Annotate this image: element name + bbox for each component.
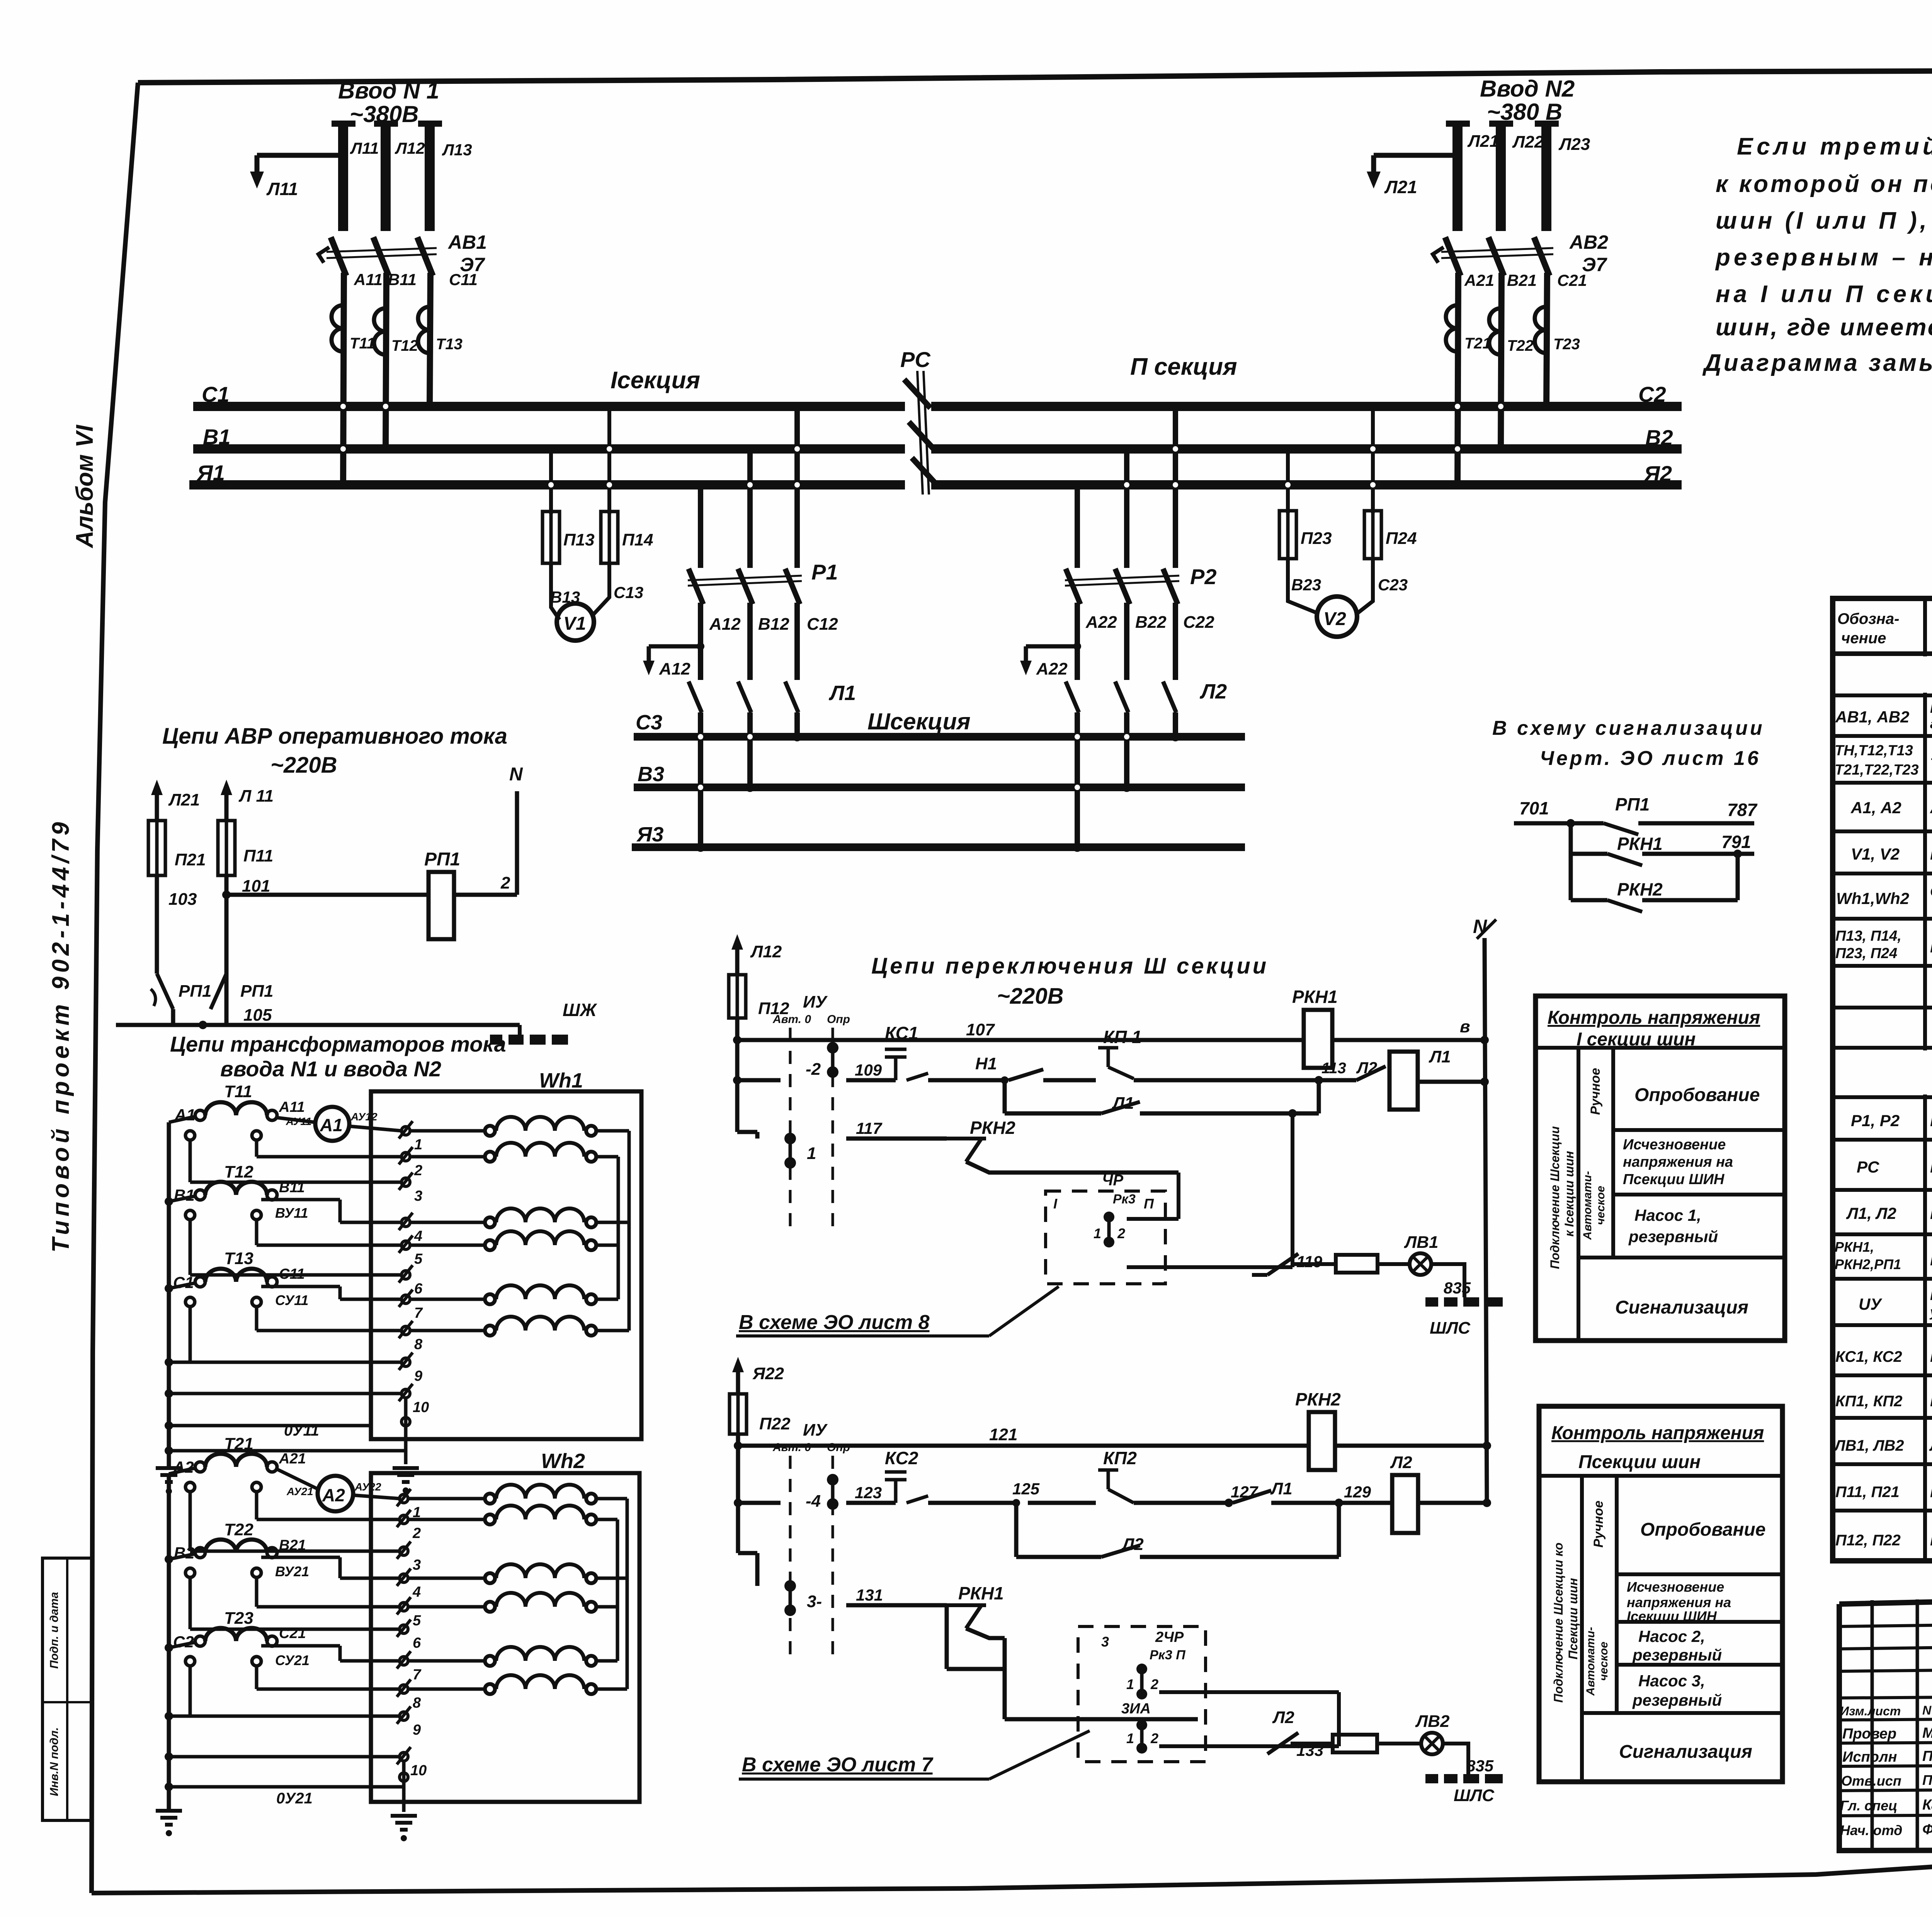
svg-text:Изм.лист: Изм.лист xyxy=(1840,1704,1901,1718)
svg-text:Диаграмма замыкания контакто: Диаграмма замыкания контактов универсаль… xyxy=(1702,350,1932,376)
row LV lampa xyxy=(1833,1462,1932,1466)
svg-text:UУ: UУ xyxy=(1859,1295,1883,1313)
svg-text:Л22: Л22 xyxy=(1512,133,1544,151)
bus C3 xyxy=(634,733,1245,741)
P2 poles mid segment xyxy=(1075,603,1080,680)
svg-text:Л12: Л12 xyxy=(750,942,782,961)
svg-text:П13: П13 xyxy=(563,530,595,549)
svg-text:Л 11: Л 11 xyxy=(238,787,274,806)
feeder 2 pole L21 xyxy=(1446,121,1470,127)
tap A22 arrow xyxy=(1026,644,1077,649)
svg-text:3: 3 xyxy=(413,1557,421,1573)
svg-text:3ИА: 3ИА xyxy=(1121,1701,1151,1717)
svg-text:П11, П21: П11, П21 xyxy=(1835,1484,1900,1501)
svg-text:Автомати-: Автомати- xyxy=(1584,1627,1597,1696)
svg-text:П22: П22 xyxy=(759,1414,791,1433)
svg-text:Насос 2,: Насос 2, xyxy=(1638,1627,1705,1645)
svg-text:П: П xyxy=(1144,1196,1154,1212)
svg-text:2: 2 xyxy=(1150,1676,1158,1692)
feed arrow L22 xyxy=(732,1357,744,1372)
row P1 P2 rubilnik xyxy=(1833,1138,1932,1142)
svg-text:Цепи трансформаторов тока: Цепи трансформаторов тока xyxy=(170,1032,506,1056)
wire 103 stem xyxy=(155,875,159,974)
svg-text:Автомати-: Автомати- xyxy=(1581,1171,1594,1240)
feeder2 poles down to buses xyxy=(1458,273,1458,485)
svg-text:Сигнализация: Сигнализация xyxy=(1619,1742,1752,1762)
svg-text:Исчезновение: Исчезновение xyxy=(1623,1137,1726,1153)
contactor L2 strokes xyxy=(1066,681,1079,712)
svg-text:Опр: Опр xyxy=(827,1441,850,1454)
svg-text:С22: С22 xyxy=(1183,613,1214,632)
fuse P11 xyxy=(218,821,235,875)
bus C section I segment xyxy=(193,402,905,411)
svg-text:1: 1 xyxy=(1094,1225,1101,1241)
svg-text:2: 2 xyxy=(1117,1225,1125,1241)
svg-text:А1: А1 xyxy=(320,1115,343,1135)
svg-text:РКН1: РКН1 xyxy=(1292,987,1338,1007)
bus A section II segment xyxy=(931,480,1682,489)
svg-text:2ЧР: 2ЧР xyxy=(1155,1629,1184,1645)
wire fuse P23 to V2 xyxy=(1288,559,1318,614)
Wh2 coil feeds xyxy=(408,1499,627,1689)
wire fuse P24 to V2 xyxy=(1357,559,1373,614)
fuse P24 body xyxy=(1364,511,1381,559)
wire RP1 to N xyxy=(454,893,517,897)
svg-text:в: в xyxy=(1460,1017,1470,1036)
wire 101 stem xyxy=(224,875,229,1025)
svg-text:Шсекция: Шсекция xyxy=(867,709,971,734)
svg-text:Подключение Шсекции: Подключение Шсекции xyxy=(1548,1126,1562,1269)
svg-text:0У11: 0У11 xyxy=(284,1422,319,1439)
junction dots feeder2 on buses xyxy=(1453,480,1462,489)
svg-text:Т11: Т11 xyxy=(224,1082,252,1101)
svg-text:701: 701 xyxy=(1519,798,1549,818)
svg-text:чение: чение xyxy=(1841,630,1886,647)
relay coil RKN2 xyxy=(1309,1412,1335,1470)
wire 107 xyxy=(735,1018,740,1132)
svg-text:Ввод N 1: Ввод N 1 xyxy=(338,78,439,104)
CT T13 xyxy=(418,307,430,353)
svg-text:РС: РС xyxy=(1857,1158,1879,1176)
svg-text:Переключатель: Переключатель xyxy=(1930,1287,1932,1303)
svg-text:С23: С23 xyxy=(1378,576,1408,594)
fuse P23 riser xyxy=(1286,449,1290,513)
svg-text:ВУ21: ВУ21 xyxy=(275,1564,309,1579)
rail channel2 xyxy=(738,1501,781,1505)
svg-text:2: 2 xyxy=(500,874,510,892)
svg-text:N докум: N докум xyxy=(1922,1703,1932,1717)
relay coil RKN1 xyxy=(1304,1010,1332,1068)
svg-text:Р2: Р2 xyxy=(1190,564,1217,589)
svg-text:ЛВ2: ЛВ2 xyxy=(1415,1712,1450,1731)
svg-text:1: 1 xyxy=(414,1137,422,1153)
svg-text:П21: П21 xyxy=(175,850,206,869)
svg-text:3: 3 xyxy=(1101,1634,1109,1650)
bus B section II segment xyxy=(931,444,1682,454)
svg-text:Wh2: Wh2 xyxy=(541,1450,585,1473)
empty row 1 xyxy=(1833,1006,1932,1009)
svg-text:9: 9 xyxy=(413,1722,421,1738)
svg-text:РКН2: РКН2 xyxy=(1295,1389,1341,1409)
svg-text:Опробование: Опробование xyxy=(1640,1519,1765,1540)
svg-text:Опр: Опр xyxy=(827,1013,850,1026)
CT T21 xyxy=(1446,305,1458,352)
common return bus Wh2 xyxy=(167,1474,171,1811)
svg-text:Подп. и дата: Подп. и дата xyxy=(48,1592,61,1669)
svg-text:~220В: ~220В xyxy=(997,984,1064,1009)
svg-text:Нач. отд: Нач. отд xyxy=(1840,1822,1902,1838)
line from 119 contact left xyxy=(1291,1262,1336,1266)
svg-text:3: 3 xyxy=(414,1188,422,1204)
svg-text:Типовой проект 902-1-44/79: Типовой проект 902-1-44/79 xyxy=(48,818,74,1253)
bus C section II segment xyxy=(931,402,1682,411)
svg-text:Ручное: Ручное xyxy=(1588,1068,1603,1115)
svg-text:автоматический: автоматический xyxy=(1930,717,1932,731)
voltmeter V1 xyxy=(557,603,594,641)
svg-text:ШЛС: ШЛС xyxy=(1430,1319,1471,1337)
bypass contact L1 xyxy=(1003,1080,1007,1113)
Wh1 mesh wires xyxy=(169,1126,406,1464)
svg-text:8: 8 xyxy=(414,1336,423,1353)
terminal bar ShZh xyxy=(518,1025,522,1035)
svg-text:АУ21: АУ21 xyxy=(286,1485,313,1497)
CT T12 xyxy=(374,308,386,355)
svg-text:Л1: Л1 xyxy=(828,681,856,705)
feeder1 poles through CT zone down to buses xyxy=(343,273,344,485)
svg-text:шин, где имеется напряжени: шин, где имеется напряжение. xyxy=(1716,314,1932,341)
contact RP1 right xyxy=(211,974,226,1009)
svg-text:ВУ11: ВУ11 xyxy=(275,1205,308,1221)
svg-text:Провер: Провер xyxy=(1842,1726,1896,1742)
svg-text:Пономарев: Пономарев xyxy=(1922,1772,1932,1788)
svg-text:Л21: Л21 xyxy=(1467,132,1499,151)
PC linkage xyxy=(917,371,923,495)
svg-text:Кнопка управления: Кнопка управления xyxy=(1930,1393,1932,1410)
feeder 1 pole L13 xyxy=(418,121,442,127)
svg-text:Wh1: Wh1 xyxy=(539,1069,583,1092)
svg-text:П14: П14 xyxy=(622,530,653,549)
svg-text:791: 791 xyxy=(1721,832,1751,852)
node N riser xyxy=(515,791,519,895)
svg-text:В2: В2 xyxy=(1645,425,1673,450)
svg-text:113: 113 xyxy=(1321,1060,1346,1077)
svg-text:4: 4 xyxy=(414,1228,422,1244)
svg-text:КП1, КП2: КП1, КП2 xyxy=(1835,1393,1902,1410)
PC knife A xyxy=(912,458,938,486)
svg-text:Л1: Л1 xyxy=(1429,1047,1451,1066)
contact RP1 left xyxy=(157,974,173,1009)
row transformator toka xyxy=(1833,781,1932,785)
svg-text:1: 1 xyxy=(807,1144,816,1163)
svg-text:Исчезновение: Исчезновение xyxy=(1627,1579,1724,1595)
svg-text:109: 109 xyxy=(855,1061,882,1079)
svg-text:5: 5 xyxy=(414,1251,423,1267)
svg-text:КП 1: КП 1 xyxy=(1103,1027,1142,1047)
row predohranitel PRS-6 xyxy=(1833,964,1932,968)
contactor L1 strokes xyxy=(689,681,702,712)
svg-text:РКН2: РКН2 xyxy=(970,1118,1015,1138)
svg-text:5: 5 xyxy=(413,1613,421,1629)
svg-text:Амперметр: Амперметр xyxy=(1930,799,1932,817)
relay coil RP1 xyxy=(429,872,454,939)
svg-text:АУ22: АУ22 xyxy=(354,1481,381,1493)
row L1 L2 puskatel xyxy=(1833,1232,1932,1236)
svg-text:Фролов: Фролов xyxy=(1922,1822,1932,1838)
svg-text:125: 125 xyxy=(1012,1480,1040,1498)
svg-text:Авт. 0: Авт. 0 xyxy=(772,1441,811,1454)
svg-text:СУ11: СУ11 xyxy=(275,1292,308,1308)
left grid horizontals xyxy=(1839,1623,1932,1626)
svg-text:А2: А2 xyxy=(322,1485,345,1505)
dashed aux box channel2 xyxy=(1078,1626,1206,1762)
ground Wh2 left xyxy=(156,1811,182,1825)
svg-text:РКН1: РКН1 xyxy=(1617,834,1663,854)
svg-text:Я2: Я2 xyxy=(1643,461,1672,486)
svg-text:Сигнализация: Сигнализация xyxy=(1615,1297,1748,1318)
feeder 1 pole L11 xyxy=(332,121,355,127)
CT T22 xyxy=(1489,308,1501,355)
svg-text:10: 10 xyxy=(413,1399,429,1416)
svg-text:Счетчик активной: Счетчик активной xyxy=(1930,884,1932,899)
svg-text:7: 7 xyxy=(414,1305,423,1321)
svg-text:А11: А11 xyxy=(354,270,383,289)
svg-text:1: 1 xyxy=(1126,1730,1134,1746)
svg-text:резервный: резервный xyxy=(1628,1227,1718,1246)
svg-text:А21: А21 xyxy=(1464,271,1494,289)
ground Wh1 under terminal 10 xyxy=(393,1468,419,1482)
svg-text:ЧР: ЧР xyxy=(1102,1172,1123,1189)
svg-text:Л2: Л2 xyxy=(1272,1708,1294,1727)
svg-text:А12: А12 xyxy=(659,659,690,678)
arrow feed L11 xyxy=(221,780,232,795)
junction dots feeder1 on buses xyxy=(338,480,348,489)
svg-text:121: 121 xyxy=(989,1425,1017,1444)
svg-text:В схему сигнализации: В схему сигнализации xyxy=(1492,717,1765,739)
fuse P23 body xyxy=(1279,511,1296,559)
svg-text:РП1: РП1 xyxy=(1615,794,1650,814)
svg-text:шин (I или П ), к которой п: шин (I или П ), к которой подключен резе… xyxy=(1716,207,1932,234)
svg-text:Рубильник: Рубильник xyxy=(1930,1158,1932,1176)
svg-text:Насос 1,: Насос 1, xyxy=(1634,1206,1701,1224)
svg-text:Iсекция: Iсекция xyxy=(611,367,700,394)
svg-text:Л12: Л12 xyxy=(395,139,425,157)
svg-text:Вольтметр: Вольтметр xyxy=(1930,845,1932,863)
CT T23 xyxy=(195,1636,205,1646)
control box I section xyxy=(1536,996,1785,1341)
svg-text:П24: П24 xyxy=(1386,529,1417,548)
fuse P12 xyxy=(729,975,746,1018)
svg-text:АВ1, АВ2: АВ1, АВ2 xyxy=(1835,708,1909,726)
svg-text:Л11: Л11 xyxy=(266,179,298,199)
svg-text:Рк3: Рк3 xyxy=(1113,1192,1136,1207)
rail channel1 xyxy=(737,1078,781,1083)
svg-text:Л2: Л2 xyxy=(1390,1453,1412,1472)
dashed aux box channel1 xyxy=(1046,1191,1165,1284)
wire fuse P14 to V1 xyxy=(594,563,609,614)
svg-text:V1, V2: V1, V2 xyxy=(1851,845,1900,863)
svg-text:Педан: Педан xyxy=(1922,1748,1932,1764)
row UU perekluchatel xyxy=(1833,1323,1932,1327)
breaker AB1 pole strokes xyxy=(331,237,346,276)
bus A3 xyxy=(632,843,1245,851)
terminal column Wh2 xyxy=(397,1489,411,1764)
svg-text:Цепи АВР оперативного тока: Цепи АВР оперативного тока xyxy=(162,724,507,749)
svg-text:I секции шин: I секции шин xyxy=(1577,1029,1696,1050)
frame bottom border xyxy=(92,1849,1932,1893)
disconnect P2 risers xyxy=(1075,485,1080,568)
band shkaf 2 xyxy=(1833,1046,1932,1050)
breaker AB1 hook flag xyxy=(318,247,329,263)
CT T11 xyxy=(195,1110,205,1120)
box2 column dividers xyxy=(1580,1476,1584,1782)
row ampermetr xyxy=(1833,829,1932,833)
svg-text:Рк3 П: Рк3 П xyxy=(1150,1648,1186,1662)
feeder 2 pole L23 xyxy=(1535,121,1559,127)
svg-text:117: 117 xyxy=(856,1119,883,1137)
N vertical line xyxy=(1485,938,1487,1503)
svg-text:Я22: Я22 xyxy=(752,1364,784,1383)
svg-text:Авт. 0: Авт. 0 xyxy=(772,1013,811,1026)
svg-text:Т21: Т21 xyxy=(224,1434,253,1453)
crossing hop dots xyxy=(340,404,1503,790)
svg-text:резервный: резервный xyxy=(1632,1646,1722,1664)
rail 117 xyxy=(737,1130,757,1134)
P2 knife strokes xyxy=(1066,569,1080,604)
row schetchik xyxy=(1833,917,1932,921)
svg-text:Л21: Л21 xyxy=(168,790,200,809)
CT T11 xyxy=(332,305,343,352)
box1 rows xyxy=(1613,1128,1785,1132)
svg-text:АУ12: АУ12 xyxy=(350,1111,378,1123)
svg-text:РП1: РП1 xyxy=(240,982,273,1001)
bus B3 xyxy=(634,783,1245,791)
svg-text:Я3: Я3 xyxy=(636,823,663,846)
svg-text:к Iсекции шин: к Iсекции шин xyxy=(1562,1151,1576,1237)
svg-text:ШЛС: ШЛС xyxy=(1454,1786,1495,1805)
ammeter A1 xyxy=(315,1107,349,1141)
svg-text:Насос 3,: Насос 3, xyxy=(1638,1672,1705,1690)
frame left border xyxy=(92,83,138,1893)
svg-text:Т11: Т11 xyxy=(350,335,375,352)
svg-text:Пускатель магнитный: Пускатель магнитный xyxy=(1930,1205,1932,1222)
fuse P22 xyxy=(730,1394,747,1434)
fuse P21 xyxy=(148,821,165,875)
svg-text:835: 835 xyxy=(1466,1757,1494,1775)
svg-text:Контроль напряжения: Контроль напряжения xyxy=(1548,1008,1760,1028)
column borders xyxy=(1923,598,1927,1561)
svg-text:В11: В11 xyxy=(388,270,417,289)
svg-text:Н1: Н1 xyxy=(975,1054,997,1073)
PC knife B xyxy=(909,422,935,450)
Wh2 coil rows xyxy=(485,1485,596,1694)
svg-text:0У21: 0У21 xyxy=(276,1790,313,1807)
svg-text:П23, П24: П23, П24 xyxy=(1835,945,1897,962)
box1 column dividers xyxy=(1577,1048,1580,1341)
breaker AB2 hook flag xyxy=(1433,247,1444,263)
bus B section I segment xyxy=(193,444,905,454)
svg-text:Если третий насос является: Если третий насос является рабочим, то Ш… xyxy=(1737,133,1932,160)
svg-text:С13: С13 xyxy=(614,583,643,602)
svg-text:Обозна-: Обозна- xyxy=(1837,610,1899,627)
svg-text:Л21: Л21 xyxy=(1384,177,1417,197)
svg-text:Т13: Т13 xyxy=(224,1249,253,1268)
svg-text:Черт. ЭО лист 16: Черт. ЭО лист 16 xyxy=(1540,747,1761,770)
svg-text:Мизяк: Мизяк xyxy=(1922,1725,1932,1741)
P1 knife strokes xyxy=(689,569,703,604)
svg-text:Псекции шин: Псекции шин xyxy=(1566,1578,1580,1660)
svg-text:I: I xyxy=(1053,1196,1058,1212)
svg-text:Инв.N подл.: Инв.N подл. xyxy=(48,1727,61,1796)
svg-text:Т22: Т22 xyxy=(224,1520,253,1539)
feeder2 tap wire to arrow L21 xyxy=(1374,153,1458,158)
common return bus Wh1 xyxy=(167,1122,171,1468)
band rows mask xyxy=(1835,656,1932,693)
ground Wh1 left xyxy=(156,1468,182,1482)
wire 101 horizontal xyxy=(226,893,429,897)
fuse P14 body xyxy=(601,512,618,563)
svg-text:Р1, Р2: Р1, Р2 xyxy=(1851,1111,1900,1130)
svg-text:А21: А21 xyxy=(279,1451,306,1467)
row KP knopka xyxy=(1833,1416,1932,1420)
svg-text:С21: С21 xyxy=(1557,271,1587,289)
svg-text:Л1: Л1 xyxy=(1270,1479,1293,1498)
svg-text:Предохранитель: Предохранитель xyxy=(1930,1532,1932,1549)
terminal column Wh1 xyxy=(399,1121,413,1401)
svg-text:9: 9 xyxy=(414,1368,422,1384)
svg-text:6: 6 xyxy=(414,1281,423,1297)
svg-text:2: 2 xyxy=(412,1525,421,1541)
fuse P13 riser xyxy=(549,449,553,514)
node 125 xyxy=(1012,1499,1020,1507)
svg-text:В21: В21 xyxy=(1507,271,1537,289)
svg-text:ческое: ческое xyxy=(1594,1186,1607,1225)
svg-text:Л2: Л2 xyxy=(1199,680,1227,703)
P1 poles to section III buses xyxy=(698,712,703,847)
terminal numbers Wh1 xyxy=(413,1137,429,1416)
breaker AB1 linkage xyxy=(327,248,437,252)
breaker AB2 linkage xyxy=(1441,248,1553,252)
svg-text:-4: -4 xyxy=(806,1492,821,1511)
lamp circuit LV1 xyxy=(1267,1254,1298,1275)
svg-text:П23: П23 xyxy=(1301,529,1332,548)
rail 131 xyxy=(738,1551,757,1555)
CT T23 xyxy=(1535,307,1546,353)
svg-text:А22: А22 xyxy=(1085,613,1117,632)
Wh1 meter box xyxy=(371,1091,641,1439)
svg-text:8: 8 xyxy=(413,1695,421,1711)
svg-text:Л1, Л2: Л1, Л2 xyxy=(1846,1204,1896,1222)
svg-text:Казаров: Казаров xyxy=(1922,1797,1932,1813)
svg-text:П12, П22: П12, П22 xyxy=(1835,1532,1901,1549)
svg-text:напряжения на: напряжения на xyxy=(1623,1154,1733,1170)
Wh1 coil rows xyxy=(485,1117,596,1336)
svg-text:103: 103 xyxy=(168,890,197,909)
svg-text:ввода N1 и ввода N2: ввода N1 и ввода N2 xyxy=(220,1057,441,1081)
svg-text:АВ1: АВ1 xyxy=(447,231,487,253)
svg-text:резервным – на П секцию. В сл: резервным – на П секцию. В случае исчезн… xyxy=(1715,244,1932,271)
svg-text:КП2: КП2 xyxy=(1103,1448,1137,1468)
svg-text:ШЖ: ШЖ xyxy=(563,1000,597,1020)
branch RKN2 mini xyxy=(1569,854,1573,900)
breaker AB2 pole strokes xyxy=(1445,237,1461,276)
svg-text:ТН,Т12,Т13: ТН,Т12,Т13 xyxy=(1835,743,1913,759)
svg-text:Т22: Т22 xyxy=(1507,337,1534,354)
P2 poles to section III buses xyxy=(1075,712,1080,847)
tap A12 arrow xyxy=(649,644,701,649)
svg-text:~220В: ~220В xyxy=(270,753,337,778)
feeder 2 pole L22 xyxy=(1489,121,1513,127)
svg-text:Псекции шин: Псекции шин xyxy=(1578,1452,1701,1472)
